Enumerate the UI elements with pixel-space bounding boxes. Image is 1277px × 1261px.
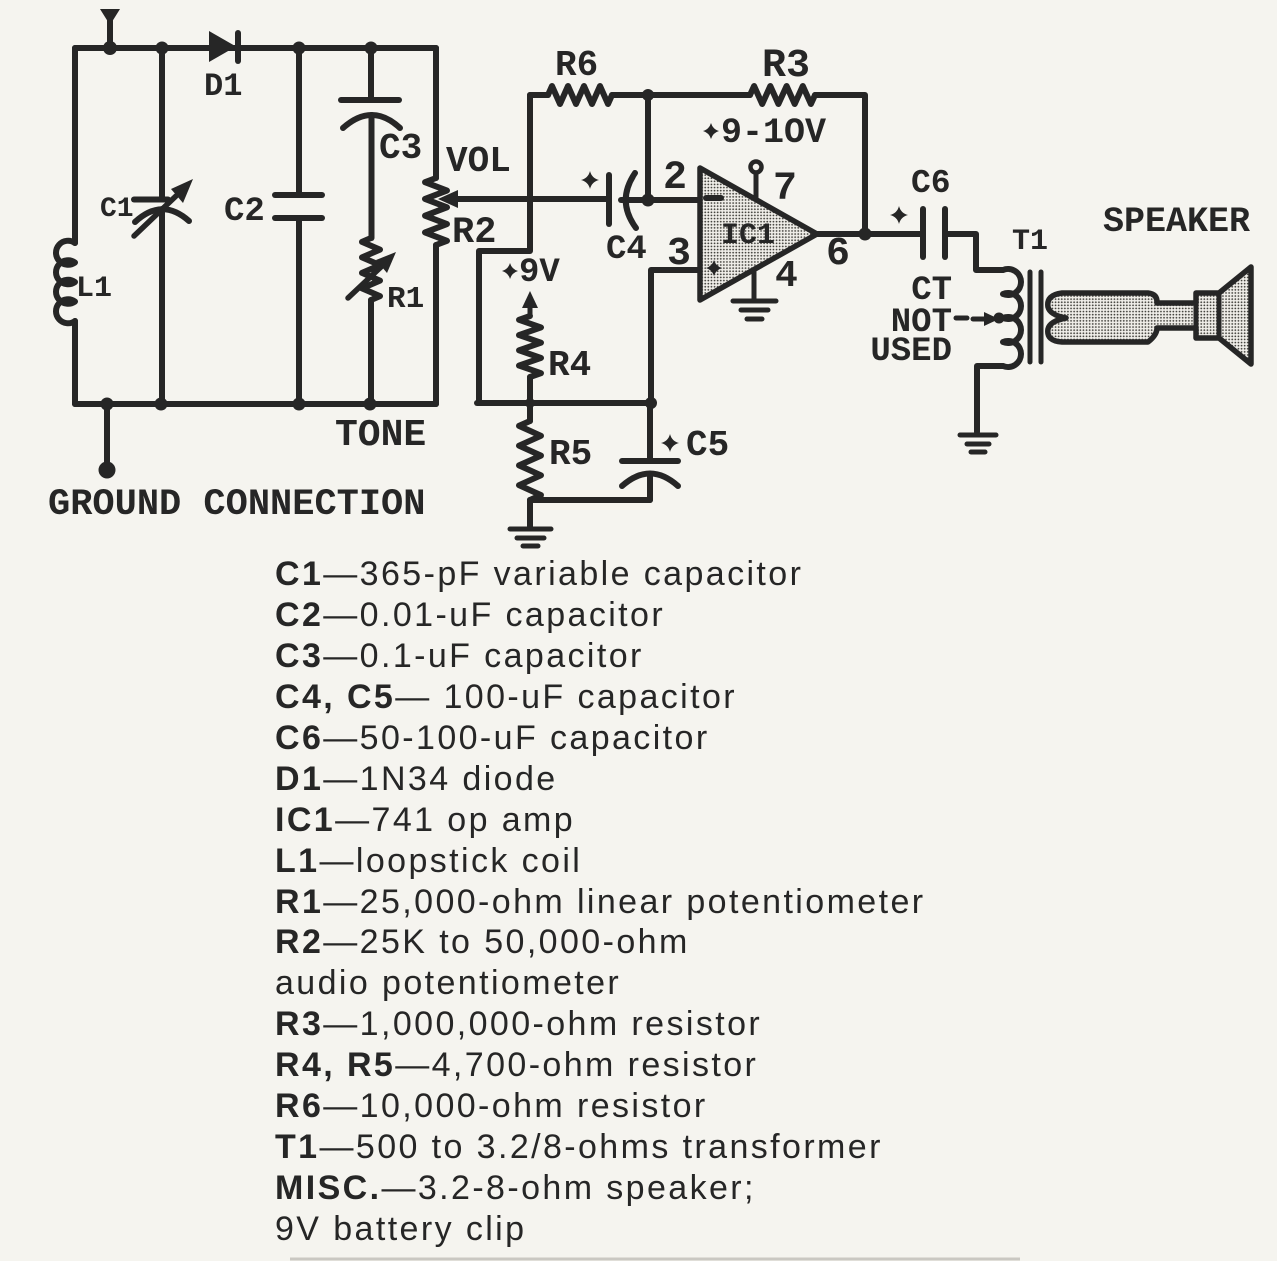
svg-text:SPEAKER: SPEAKER xyxy=(1103,202,1250,242)
svg-text:3: 3 xyxy=(667,232,691,277)
svg-text:C1: C1 xyxy=(100,194,134,225)
svg-text:9V: 9V xyxy=(519,254,560,292)
svg-text:L1: L1 xyxy=(76,272,112,306)
svg-text:TONE: TONE xyxy=(335,414,426,457)
svg-text:9-1OV: 9-1OV xyxy=(721,113,826,153)
svg-text:GROUND CONNECTION: GROUND CONNECTION xyxy=(48,484,425,526)
svg-text:IC1: IC1 xyxy=(721,219,775,253)
svg-text:R2: R2 xyxy=(452,212,496,254)
svg-text:4: 4 xyxy=(775,255,798,298)
svg-text:USED: USED xyxy=(870,333,952,371)
svg-text:C6: C6 xyxy=(911,165,951,202)
svg-text:C2: C2 xyxy=(224,193,265,231)
svg-text:R4: R4 xyxy=(548,345,591,386)
svg-text:R1: R1 xyxy=(387,282,424,317)
svg-text:C5: C5 xyxy=(686,425,729,466)
svg-text:VOL: VOL xyxy=(446,141,511,182)
svg-text:R6: R6 xyxy=(555,45,598,86)
svg-text:C3: C3 xyxy=(379,128,422,169)
svg-text:R3: R3 xyxy=(762,44,810,89)
svg-text:T1: T1 xyxy=(1012,225,1048,259)
svg-text:6: 6 xyxy=(826,232,850,277)
svg-text:D1: D1 xyxy=(204,68,242,105)
svg-text:2: 2 xyxy=(663,156,687,201)
svg-text:7: 7 xyxy=(773,167,797,212)
svg-text:R5: R5 xyxy=(549,434,592,475)
svg-text:C4: C4 xyxy=(606,231,647,269)
